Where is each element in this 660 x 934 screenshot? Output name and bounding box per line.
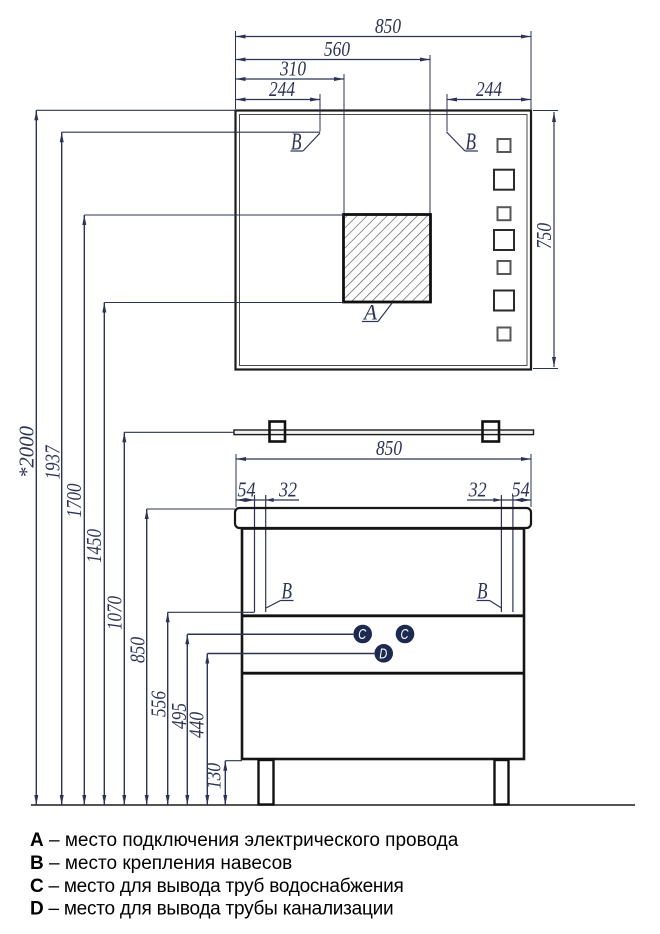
svg-text:B: B xyxy=(282,579,293,604)
svg-text:1070: 1070 xyxy=(103,596,127,630)
svg-text:850: 850 xyxy=(126,637,150,663)
svg-text:B – место крепления навесов: B – место крепления навесов xyxy=(30,853,292,874)
svg-text:C – место для вывода труб водо: C – место для вывода труб водоснабжения xyxy=(30,876,404,897)
svg-text:850: 850 xyxy=(376,436,402,460)
svg-text:1450: 1450 xyxy=(82,529,106,563)
svg-text:130: 130 xyxy=(202,763,226,789)
svg-text:32: 32 xyxy=(468,478,487,502)
svg-text:B: B xyxy=(477,579,488,604)
svg-text:560: 560 xyxy=(324,37,350,61)
svg-text:1937: 1937 xyxy=(41,444,65,479)
svg-text:D – место для вывода трубы кан: D – место для вывода трубы канализации xyxy=(30,899,393,920)
svg-text:B: B xyxy=(466,130,477,156)
svg-text:A: A xyxy=(362,300,377,325)
svg-text:32: 32 xyxy=(278,478,297,502)
svg-text:54: 54 xyxy=(512,478,530,502)
svg-text:750: 750 xyxy=(532,223,556,249)
svg-text:850: 850 xyxy=(375,14,401,38)
svg-text:C: C xyxy=(401,627,409,643)
svg-text:1700: 1700 xyxy=(62,483,86,517)
svg-text:*2000: *2000 xyxy=(15,426,39,478)
svg-text:D: D xyxy=(379,647,387,663)
svg-text:C: C xyxy=(358,627,366,643)
svg-text:B: B xyxy=(291,130,302,156)
svg-text:244: 244 xyxy=(269,77,295,101)
svg-text:244: 244 xyxy=(476,77,502,101)
svg-text:54: 54 xyxy=(238,478,256,502)
svg-text:A – место подключения электрич: A – место подключения электрического про… xyxy=(30,830,459,851)
svg-text:440: 440 xyxy=(184,712,208,738)
